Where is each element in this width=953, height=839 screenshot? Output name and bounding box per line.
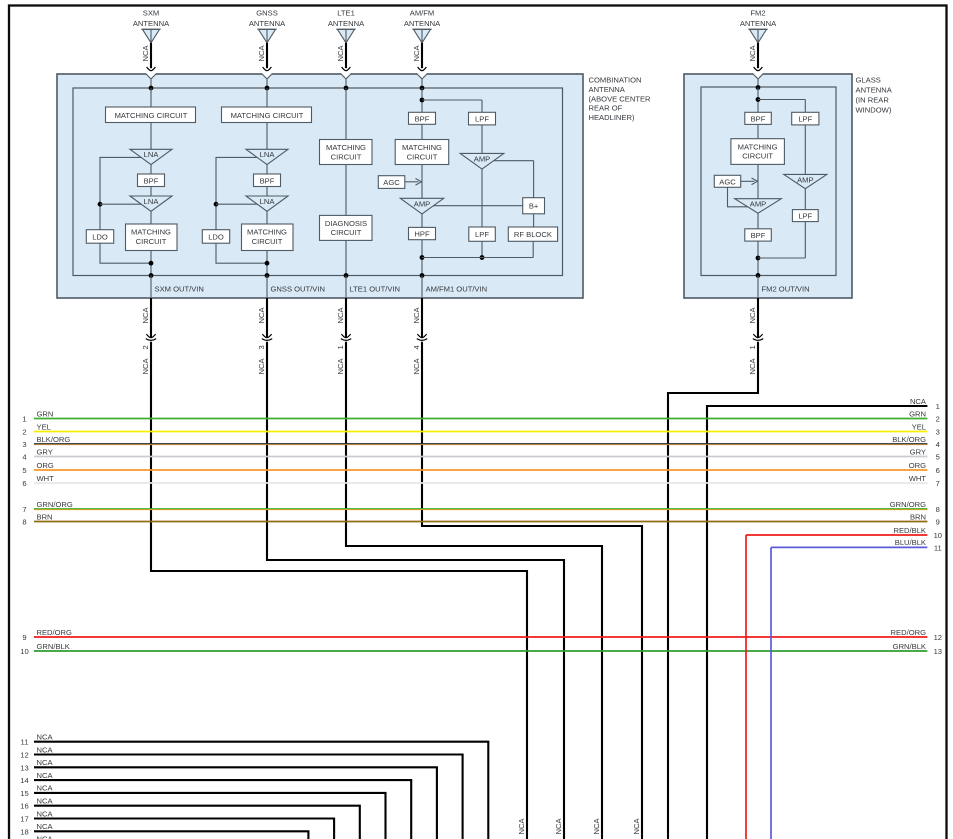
- svg-text:GNSS: GNSS: [256, 9, 278, 18]
- svg-text:GLASS: GLASS: [856, 76, 881, 85]
- svg-text:3: 3: [22, 440, 26, 449]
- svg-text:NCA: NCA: [336, 358, 345, 375]
- svg-text:B+: B+: [529, 202, 539, 211]
- svg-text:WHT: WHT: [909, 474, 927, 483]
- svg-text:2: 2: [936, 415, 940, 424]
- svg-text:16: 16: [20, 802, 28, 811]
- svg-text:BPF: BPF: [751, 114, 766, 123]
- svg-text:BPF: BPF: [415, 114, 430, 123]
- svg-text:CIRCUIT: CIRCUIT: [331, 228, 362, 237]
- svg-text:1: 1: [336, 345, 345, 349]
- svg-text:NCA: NCA: [336, 307, 345, 324]
- svg-text:ANTENNA: ANTENNA: [589, 85, 626, 94]
- svg-text:NCA: NCA: [37, 771, 54, 780]
- svg-text:5: 5: [22, 466, 26, 475]
- svg-text:GRN/BLK: GRN/BLK: [893, 642, 926, 651]
- svg-text:NCA: NCA: [37, 809, 54, 818]
- svg-text:CIRCUIT: CIRCUIT: [136, 237, 167, 246]
- svg-text:LPF: LPF: [475, 115, 489, 124]
- svg-text:NCA: NCA: [632, 818, 641, 835]
- svg-text:AMP: AMP: [474, 154, 490, 163]
- svg-text:ORG: ORG: [37, 461, 54, 470]
- svg-text:NCA: NCA: [257, 358, 266, 375]
- svg-text:4: 4: [412, 345, 421, 349]
- svg-text:RED/ORG: RED/ORG: [37, 628, 73, 637]
- svg-text:LNA: LNA: [260, 197, 276, 206]
- svg-text:ORG: ORG: [909, 461, 926, 470]
- svg-text:MATCHING: MATCHING: [247, 228, 287, 237]
- svg-text:8: 8: [22, 518, 26, 527]
- svg-text:AGC: AGC: [383, 178, 400, 187]
- svg-text:LNA: LNA: [260, 150, 276, 159]
- svg-text:LDO: LDO: [92, 233, 108, 242]
- svg-text:10: 10: [20, 647, 28, 656]
- svg-text:BRN: BRN: [910, 512, 926, 521]
- svg-text:(IN REAR: (IN REAR: [856, 96, 890, 105]
- svg-text:AM/FM: AM/FM: [410, 9, 434, 18]
- svg-text:AM/FM1 OUT/VIN: AM/FM1 OUT/VIN: [426, 284, 488, 293]
- svg-text:HEADLINER): HEADLINER): [589, 113, 635, 122]
- svg-text:NCA: NCA: [257, 45, 266, 62]
- svg-text:NCA: NCA: [37, 835, 54, 839]
- svg-text:MATCHING: MATCHING: [131, 228, 171, 237]
- svg-text:NCA: NCA: [37, 797, 54, 806]
- svg-text:FM2: FM2: [750, 9, 765, 18]
- svg-text:CIRCUIT: CIRCUIT: [331, 152, 362, 161]
- svg-text:7: 7: [936, 479, 940, 488]
- svg-text:BRN: BRN: [37, 512, 53, 521]
- svg-text:2: 2: [22, 428, 26, 437]
- svg-text:AGC: AGC: [719, 177, 736, 186]
- svg-text:GRN/BLK: GRN/BLK: [37, 642, 70, 651]
- svg-text:LPF: LPF: [475, 230, 489, 239]
- svg-text:ANTENNA: ANTENNA: [328, 19, 365, 28]
- svg-text:LTE1 OUT/VIN: LTE1 OUT/VIN: [350, 284, 401, 293]
- svg-text:BPF: BPF: [260, 176, 275, 185]
- svg-text:YEL: YEL: [37, 422, 51, 431]
- svg-text:6: 6: [936, 466, 940, 475]
- svg-text:LNA: LNA: [144, 150, 160, 159]
- svg-text:BLU/BLK: BLU/BLK: [895, 538, 926, 547]
- svg-text:GRY: GRY: [910, 447, 926, 456]
- svg-text:6: 6: [22, 479, 26, 488]
- svg-text:REAR OF: REAR OF: [589, 104, 623, 113]
- svg-text:4: 4: [936, 440, 940, 449]
- svg-text:18: 18: [20, 827, 28, 836]
- svg-text:NCA: NCA: [748, 45, 757, 62]
- svg-text:14: 14: [20, 776, 28, 785]
- svg-text:ANTENNA: ANTENNA: [404, 19, 441, 28]
- svg-text:BLK/ORG: BLK/ORG: [37, 435, 71, 444]
- svg-text:AMP: AMP: [750, 200, 766, 209]
- svg-text:10: 10: [934, 531, 942, 540]
- svg-text:9: 9: [936, 518, 940, 527]
- svg-text:ANTENNA: ANTENNA: [249, 19, 286, 28]
- svg-text:15: 15: [20, 789, 28, 798]
- svg-text:NCA: NCA: [257, 307, 266, 324]
- svg-text:ANTENNA: ANTENNA: [740, 19, 777, 28]
- svg-text:FM2 OUT/VIN: FM2 OUT/VIN: [762, 284, 810, 293]
- svg-text:12: 12: [934, 633, 942, 642]
- svg-text:BPF: BPF: [751, 231, 766, 240]
- svg-text:NCA: NCA: [748, 307, 757, 324]
- svg-text:GRN: GRN: [909, 409, 926, 418]
- svg-text:LNA: LNA: [144, 197, 160, 206]
- svg-text:CIRCUIT: CIRCUIT: [742, 152, 773, 161]
- svg-text:HPF: HPF: [414, 230, 430, 239]
- svg-text:NCA: NCA: [141, 45, 150, 62]
- svg-text:ANTENNA: ANTENNA: [133, 19, 170, 28]
- svg-text:1: 1: [936, 402, 940, 411]
- svg-text:BPF: BPF: [144, 176, 159, 185]
- svg-text:NCA: NCA: [37, 733, 54, 742]
- svg-text:9: 9: [22, 633, 26, 642]
- svg-text:MATCHING: MATCHING: [326, 143, 366, 152]
- svg-text:17: 17: [20, 815, 28, 824]
- svg-text:SXM OUT/VIN: SXM OUT/VIN: [155, 284, 204, 293]
- svg-text:RF BLOCK: RF BLOCK: [514, 230, 552, 239]
- svg-text:11: 11: [934, 543, 942, 552]
- svg-text:3: 3: [257, 345, 266, 349]
- svg-text:4: 4: [22, 453, 26, 462]
- svg-text:1: 1: [748, 345, 757, 349]
- svg-text:NCA: NCA: [412, 45, 421, 62]
- svg-text:GRN/ORG: GRN/ORG: [890, 500, 926, 509]
- svg-text:NCA: NCA: [141, 307, 150, 324]
- svg-text:12: 12: [20, 751, 28, 760]
- svg-text:NCA: NCA: [37, 822, 54, 831]
- svg-text:NCA: NCA: [748, 358, 757, 375]
- svg-text:NCA: NCA: [37, 784, 54, 793]
- svg-text:DIAGNOSIS: DIAGNOSIS: [325, 219, 367, 228]
- svg-text:2: 2: [141, 345, 150, 349]
- svg-text:AMP: AMP: [414, 199, 430, 208]
- svg-text:AMP: AMP: [797, 176, 813, 185]
- svg-text:MATCHING: MATCHING: [738, 142, 778, 151]
- svg-text:NCA: NCA: [336, 45, 345, 62]
- svg-text:5: 5: [936, 453, 940, 462]
- svg-text:COMBINATION: COMBINATION: [589, 76, 642, 85]
- svg-text:CIRCUIT: CIRCUIT: [407, 152, 438, 161]
- svg-text:GNSS OUT/VIN: GNSS OUT/VIN: [271, 284, 325, 293]
- svg-text:NCA: NCA: [517, 818, 526, 835]
- svg-text:MATCHING: MATCHING: [402, 143, 442, 152]
- svg-text:LDO: LDO: [208, 233, 224, 242]
- svg-text:BLK/ORG: BLK/ORG: [892, 435, 926, 444]
- svg-text:ANTENNA: ANTENNA: [856, 86, 893, 95]
- svg-text:GRY: GRY: [37, 447, 53, 456]
- svg-text:RED/ORG: RED/ORG: [891, 628, 927, 637]
- svg-text:11: 11: [21, 738, 29, 747]
- svg-text:13: 13: [934, 647, 942, 656]
- svg-text:1: 1: [22, 415, 26, 424]
- svg-text:SXM: SXM: [143, 9, 159, 18]
- svg-text:NCA: NCA: [554, 818, 563, 835]
- svg-text:3: 3: [936, 428, 940, 437]
- svg-text:CIRCUIT: CIRCUIT: [252, 237, 283, 246]
- svg-text:MATCHING CIRCUIT: MATCHING CIRCUIT: [115, 111, 188, 120]
- svg-text:NCA: NCA: [141, 358, 150, 375]
- svg-text:WHT: WHT: [37, 474, 55, 483]
- svg-text:RED/BLK: RED/BLK: [894, 526, 927, 535]
- svg-text:GRN: GRN: [37, 409, 54, 418]
- svg-text:WINDOW): WINDOW): [856, 106, 892, 115]
- svg-text:LPF: LPF: [798, 115, 812, 124]
- svg-text:7: 7: [22, 505, 26, 514]
- svg-text:GRN/ORG: GRN/ORG: [37, 500, 73, 509]
- svg-text:LTE1: LTE1: [337, 9, 355, 18]
- svg-text:(ABOVE CENTER: (ABOVE CENTER: [589, 94, 652, 103]
- svg-text:LPF: LPF: [798, 212, 812, 221]
- svg-text:NCA: NCA: [37, 745, 54, 754]
- svg-text:NCA: NCA: [592, 818, 601, 835]
- svg-text:NCA: NCA: [37, 758, 54, 767]
- svg-text:NCA: NCA: [910, 397, 927, 406]
- svg-text:NCA: NCA: [412, 307, 421, 324]
- svg-text:YEL: YEL: [912, 422, 926, 431]
- svg-text:MATCHING CIRCUIT: MATCHING CIRCUIT: [231, 111, 304, 120]
- svg-text:13: 13: [20, 763, 28, 772]
- svg-text:NCA: NCA: [412, 358, 421, 375]
- svg-text:8: 8: [936, 505, 940, 514]
